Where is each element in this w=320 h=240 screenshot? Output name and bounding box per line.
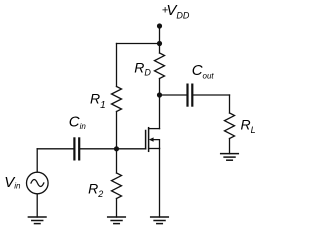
svg-text:Cout: Cout xyxy=(192,62,215,81)
svg-text:Vin: Vin xyxy=(4,174,21,191)
svg-text:R1: R1 xyxy=(90,90,106,111)
svg-text:RD: RD xyxy=(134,59,151,77)
svg-text:RL: RL xyxy=(241,117,256,135)
svg-text:Cin: Cin xyxy=(69,113,87,131)
svg-text:VDD: VDD xyxy=(166,2,190,20)
svg-text:R2: R2 xyxy=(88,181,103,200)
